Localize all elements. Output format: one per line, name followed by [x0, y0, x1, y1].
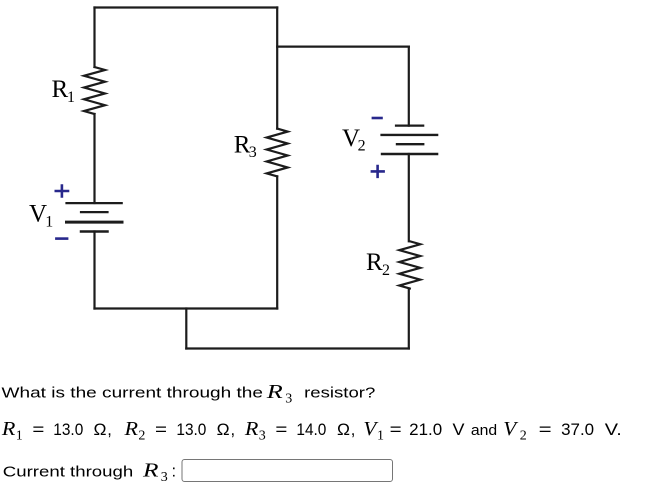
plus sign V1: [55, 184, 70, 198]
battery V1 plate long top: [67, 202, 122, 204]
svg-text:1: 1: [377, 429, 384, 444]
svg-text:R: R: [123, 419, 138, 440]
svg-text:V.: V.: [605, 421, 622, 439]
wire bottom of left loop: [95, 307, 278, 309]
svg-text:,: ,: [107, 421, 112, 439]
svg-text:V: V: [503, 419, 518, 440]
svg-text:14.0: 14.0: [296, 421, 326, 439]
wire drop from left loop bottom: [185, 309, 187, 349]
wire left vertical lower: [93, 232, 95, 309]
svg-text:Current through: Current through: [3, 464, 133, 481]
svg-text:=: =: [32, 421, 44, 439]
svg-text::: :: [172, 463, 177, 481]
battery V1 plate short: [81, 211, 108, 213]
svg-text:13.0: 13.0: [53, 421, 83, 439]
minus sign V2: [372, 117, 383, 120]
svg-text:R: R: [366, 249, 383, 276]
svg-text:2: 2: [520, 429, 527, 444]
answer input box: [182, 460, 393, 482]
svg-text:2: 2: [382, 262, 390, 279]
svg-text:and: and: [471, 422, 497, 439]
battery V1 plate long thick: [67, 221, 123, 224]
svg-text:3: 3: [285, 391, 292, 406]
svg-text:37.0: 37.0: [561, 421, 594, 439]
wire left vertical upper: [93, 8, 95, 68]
battery V1 plate short bottom: [81, 230, 108, 233]
plus sign V2: [371, 165, 385, 178]
svg-text:3: 3: [259, 429, 266, 444]
svg-text:3: 3: [161, 470, 168, 485]
svg-text:R: R: [265, 382, 282, 403]
wire right vertical middle: [408, 154, 410, 241]
svg-text:1: 1: [16, 429, 23, 444]
svg-text:3: 3: [249, 144, 257, 161]
wire left vertical between R1 and V1: [93, 114, 95, 203]
wire right vertical lower: [408, 289, 410, 349]
svg-text:=: =: [539, 421, 552, 439]
svg-text:R: R: [1, 419, 16, 440]
wire bottom lower horizontal: [186, 347, 408, 349]
svg-text:=: =: [275, 421, 287, 439]
svg-text:=: =: [390, 421, 402, 439]
battery V2 plate long: [382, 134, 438, 136]
resistor R2 zigzag: [399, 241, 420, 288]
svg-text:=: =: [155, 421, 167, 439]
wire branch horizontal to right loop: [277, 45, 409, 47]
wire right vertical upper: [408, 47, 410, 126]
svg-text:R: R: [52, 76, 69, 103]
svg-text:13.0: 13.0: [176, 421, 206, 439]
svg-text:R: R: [244, 419, 259, 440]
battery V2 plate short top: [396, 124, 423, 126]
svg-text:1: 1: [45, 214, 53, 231]
wire middle vertical upper: [276, 8, 278, 129]
svg-text:,: ,: [351, 421, 356, 439]
svg-text:Ω: Ω: [337, 421, 350, 439]
minus sign V1: [55, 237, 68, 240]
svg-text:Ω: Ω: [94, 421, 107, 439]
wire middle vertical lower: [276, 176, 278, 308]
svg-text:2: 2: [138, 429, 145, 444]
svg-text:,: ,: [231, 421, 236, 439]
resistor R3 zigzag: [267, 129, 288, 177]
battery V2 plate long bottom: [382, 153, 437, 155]
battery V2 plate short middle: [397, 143, 423, 145]
svg-text:Ω: Ω: [217, 421, 230, 439]
svg-text:2: 2: [358, 138, 366, 155]
svg-text:21.0: 21.0: [409, 421, 442, 439]
wire top horizontal: [95, 6, 278, 8]
svg-text:resistor?: resistor?: [304, 385, 375, 402]
resistor R1 zigzag: [84, 67, 105, 114]
svg-text:What is the current through th: What is the current through the: [2, 385, 264, 402]
svg-text:V: V: [453, 421, 465, 439]
svg-text:1: 1: [67, 89, 75, 106]
svg-text:R: R: [142, 461, 159, 482]
